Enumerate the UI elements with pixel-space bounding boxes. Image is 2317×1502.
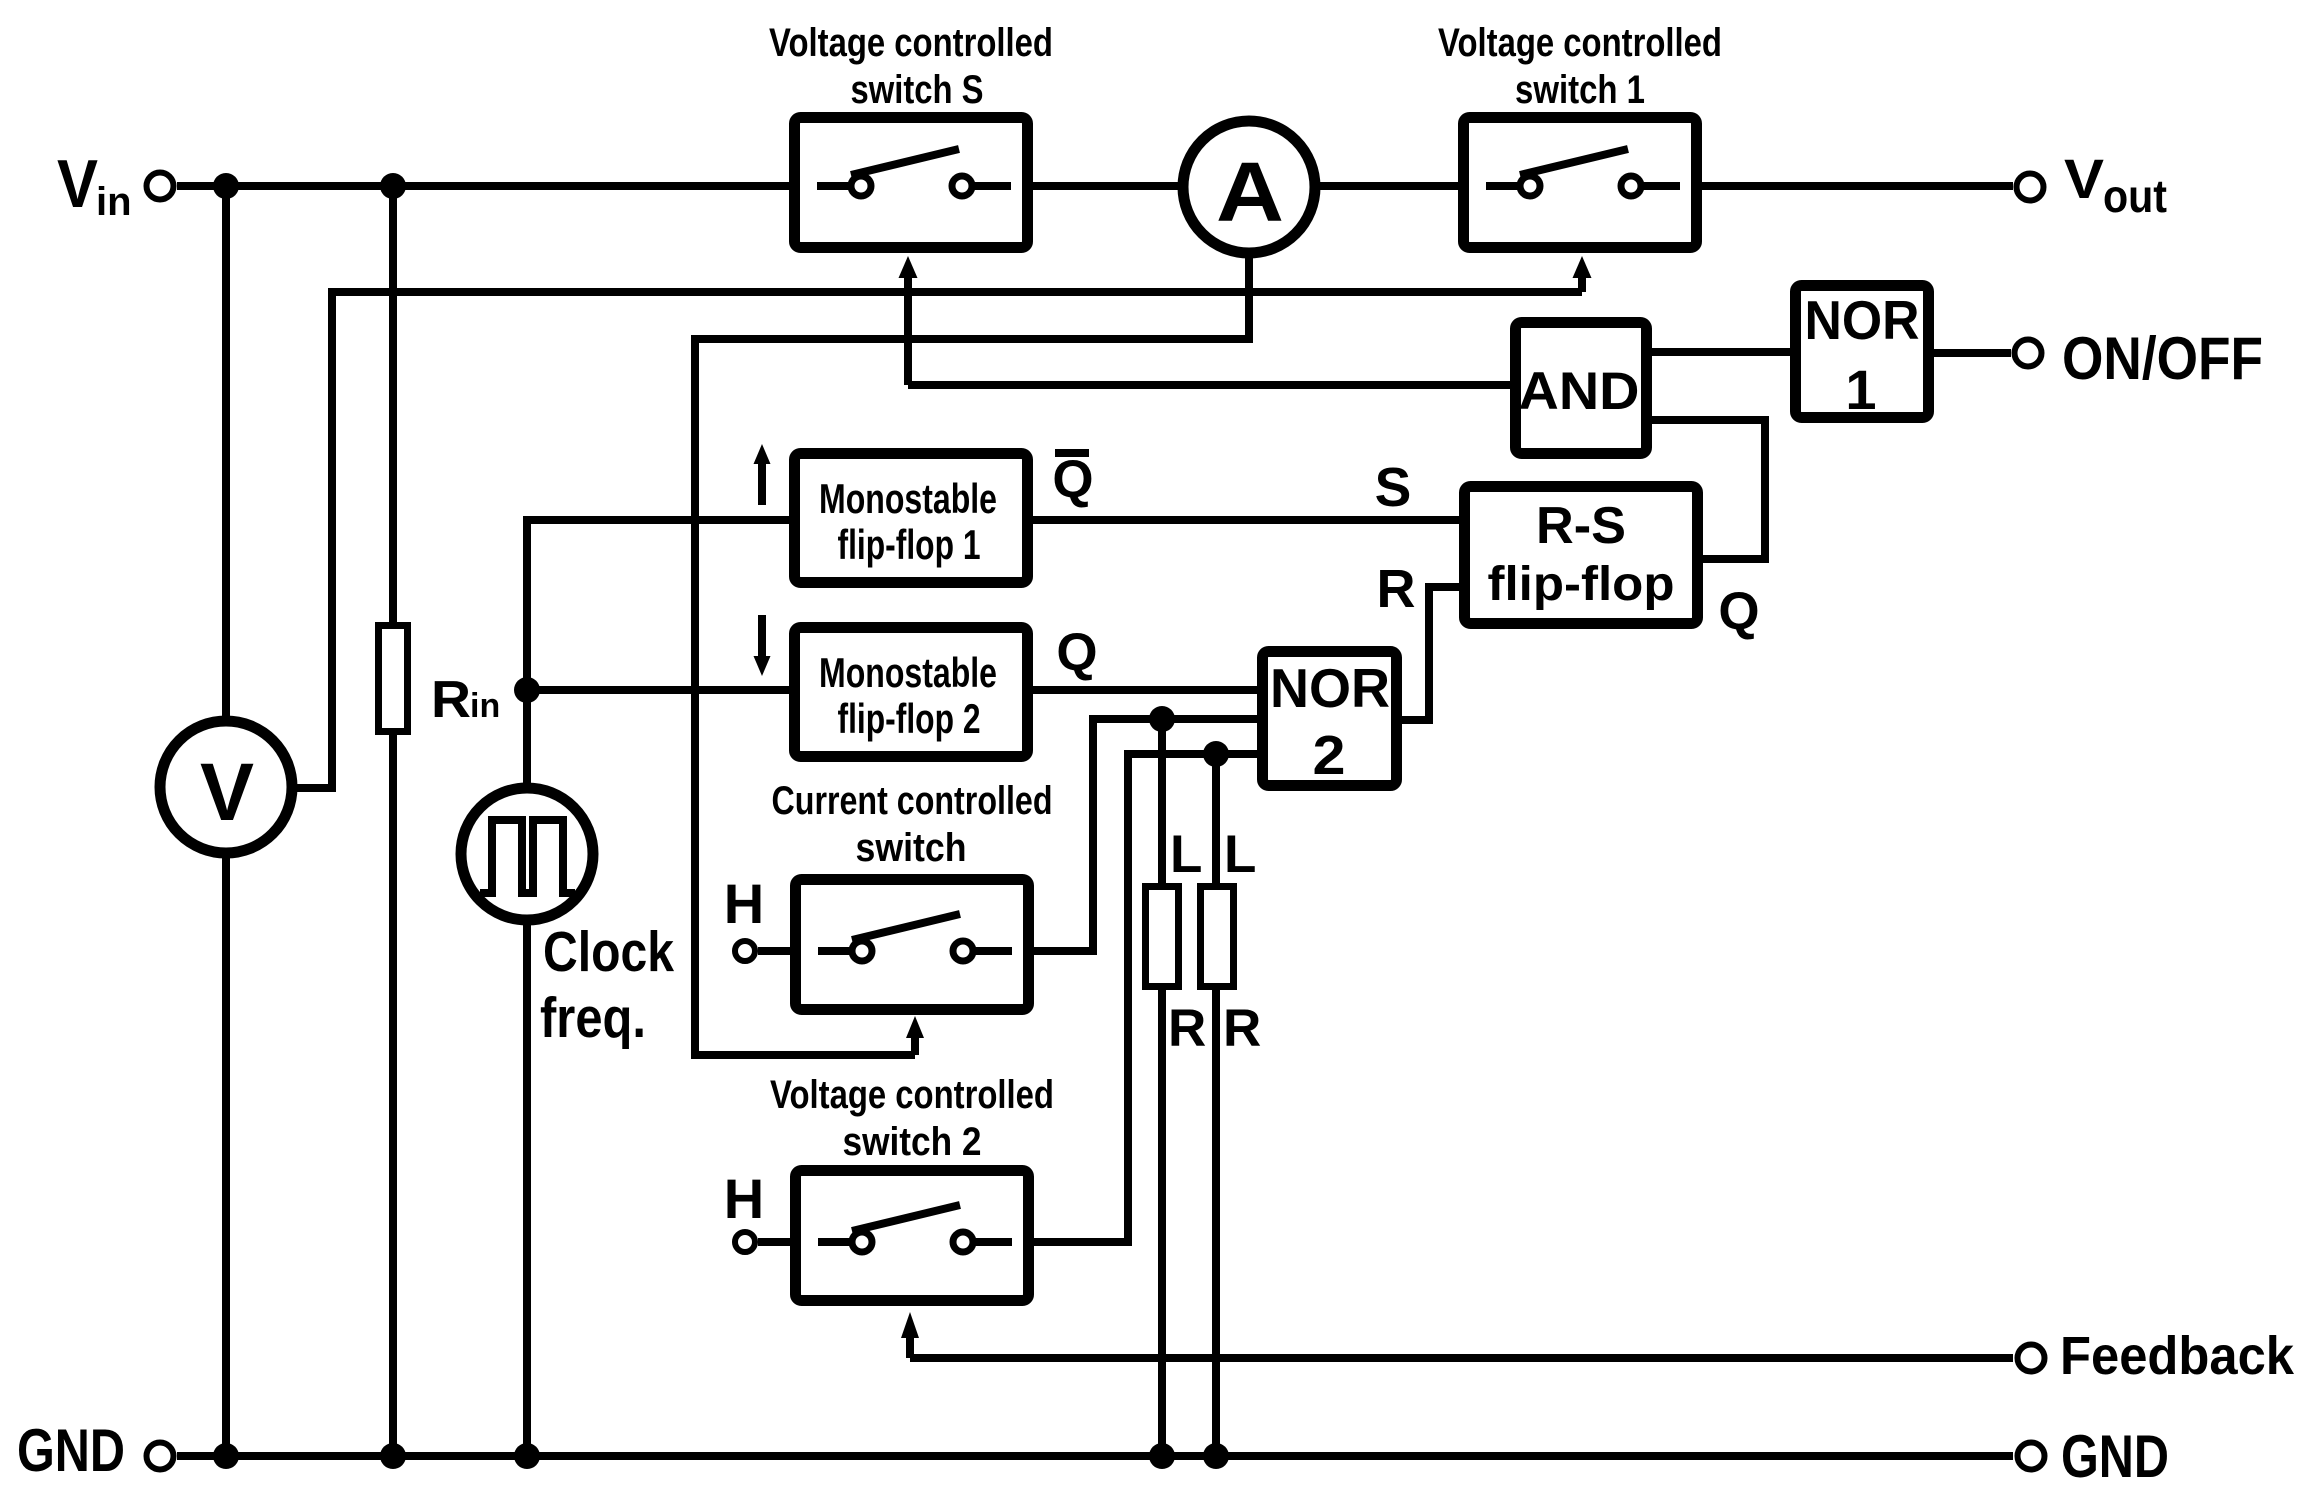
svg-text:R: R — [1377, 559, 1416, 619]
svg-text:switch: switch — [856, 826, 967, 870]
svg-text:V: V — [200, 747, 254, 838]
wire switch 2 output to NOR2 — [1034, 754, 1257, 1242]
svg-text:R-S: R-S — [1536, 497, 1626, 555]
wire arrow into switch 2 control — [906, 1337, 914, 1358]
resistor L/R right — [1201, 825, 1262, 1058]
wire GND rail — [177, 1452, 2013, 1460]
svg-text:switch 1: switch 1 — [1515, 68, 1645, 112]
svg-text:Voltage controlled: Voltage controlled — [1438, 21, 1722, 65]
svg-text:2: 2 — [1313, 724, 1346, 786]
label Current controlled switch — [772, 779, 1053, 870]
svg-text:NOR: NOR — [1270, 657, 1390, 719]
svg-text:V: V — [57, 146, 98, 222]
wire clock bottom stem — [523, 920, 531, 1456]
node GND junction Rin — [380, 1443, 406, 1469]
node GND junction V — [213, 1443, 239, 1469]
trigger arrow down — [754, 615, 771, 676]
terminal ON/OFF — [2015, 325, 2264, 392]
wire ammeter sense stem — [695, 253, 1249, 1055]
svg-text:freq.: freq. — [540, 986, 646, 1050]
wire Rin bottom — [389, 731, 397, 1456]
ammeter A — [1183, 121, 1315, 253]
svg-text:H: H — [724, 872, 764, 935]
svg-text:L: L — [1170, 825, 1202, 884]
node junction left resistor tap — [1149, 706, 1175, 732]
voltage controlled switch 2 — [796, 1171, 1029, 1301]
svg-text:flip-flop: flip-flop — [1488, 558, 1675, 611]
svg-text:ON/OFF: ON/OFF — [2062, 325, 2263, 392]
svg-text:switch 2: switch 2 — [843, 1120, 982, 1164]
wire right resistor bottom leg — [1212, 984, 1220, 1456]
svg-text:H: H — [724, 1167, 764, 1230]
svg-text:V: V — [2064, 147, 2104, 210]
wire current switch output to NOR2 — [1034, 719, 1257, 951]
svg-text:in: in — [96, 180, 132, 224]
wire arrow into switch 1 control — [1578, 276, 1586, 292]
label Voltage controlled switch 2 — [770, 1073, 1054, 1164]
gate NOR 1 — [1796, 286, 1929, 422]
terminal Vin — [57, 146, 174, 224]
svg-text:Monostable: Monostable — [819, 475, 997, 522]
wire S line from flip-flop 1 — [1033, 516, 1459, 524]
voltmeter V — [160, 721, 292, 853]
svg-text:AND: AND — [1519, 362, 1640, 421]
wire V meter top stem — [222, 186, 230, 722]
svg-text:Voltage controlled: Voltage controlled — [769, 21, 1053, 65]
wire NOR1 to ON/OFF — [1934, 349, 2011, 357]
flip-flop R-S — [1465, 487, 1698, 624]
wire main rail segment 4 — [1702, 182, 2013, 190]
node GND junction left resistor — [1149, 1443, 1175, 1469]
svg-text:A: A — [1216, 145, 1284, 239]
wire main rail segment 2 — [1033, 182, 1183, 190]
svg-text:Clock: Clock — [543, 920, 674, 984]
wire right resistor top leg — [1212, 754, 1220, 890]
gate AND — [1516, 323, 1647, 454]
wire V sense tap — [290, 292, 1582, 788]
svg-text:GND: GND — [2061, 1423, 2169, 1490]
svg-text:GND: GND — [17, 1417, 125, 1484]
resistor L/R left — [1146, 825, 1207, 1058]
wire arrow into current controlled switch — [911, 1037, 919, 1055]
svg-text:R: R — [1168, 999, 1206, 1058]
terminal Feedback — [2018, 1326, 2295, 1386]
monostable flip-flop 1 — [795, 454, 1028, 583]
wire flip-flop 2 to NOR2 — [1033, 686, 1257, 694]
svg-text:Q: Q — [1718, 582, 1759, 641]
svg-text:out: out — [2103, 170, 2167, 222]
terminal GND right — [2018, 1423, 2170, 1490]
wire AND second input from Q — [1652, 420, 1765, 559]
terminal H of voltage controlled switch 2 — [724, 1167, 792, 1252]
wire AND to NOR1 — [1652, 348, 1793, 356]
node junction right resistor tap — [1203, 741, 1229, 767]
svg-text:Feedback: Feedback — [2060, 1326, 2295, 1386]
wire clock to flip-flop 1 — [527, 520, 793, 690]
wire Feedback line — [910, 1354, 2013, 1362]
svg-text:R: R — [1223, 999, 1261, 1058]
resistor Rin — [379, 626, 501, 732]
node junction Vin-V — [213, 173, 239, 199]
svg-text:in: in — [470, 687, 500, 725]
svg-text:S: S — [1375, 456, 1412, 518]
svg-text:1: 1 — [1845, 358, 1876, 421]
terminal Vout — [2017, 147, 2168, 222]
svg-text:flip-flop 2: flip-flop 2 — [838, 695, 981, 742]
node GND junction clock — [514, 1443, 540, 1469]
svg-text:NOR: NOR — [1805, 289, 1920, 351]
wire Rin top — [389, 186, 397, 626]
wire left resistor top leg — [1158, 719, 1166, 890]
wire main rail segment 3 — [1315, 182, 1458, 190]
svg-text:Q: Q — [1056, 623, 1097, 682]
wire clock to flip-flop 2 — [527, 686, 793, 694]
svg-text:Q: Q — [1052, 450, 1093, 509]
wire left resistor bottom leg — [1158, 984, 1166, 1456]
svg-text:Monostable: Monostable — [819, 649, 997, 696]
wire clock top stem — [523, 690, 531, 790]
svg-text:Current controlled: Current controlled — [772, 779, 1053, 823]
wire R line from NOR2 — [1402, 587, 1459, 720]
svg-text:Voltage controlled: Voltage controlled — [770, 1073, 1054, 1117]
wire switch S control and AND input — [908, 381, 1510, 389]
svg-text:flip-flop 1: flip-flop 1 — [838, 521, 981, 568]
svg-text:switch S: switch S — [851, 68, 984, 112]
monostable flip-flop 2 — [795, 628, 1028, 757]
wire V meter bottom stem — [222, 853, 230, 1456]
node junction Vin-Rin — [380, 173, 406, 199]
voltage controlled switch 1 — [1438, 21, 1722, 248]
node clock junction — [514, 677, 540, 703]
svg-text:R: R — [431, 671, 471, 729]
current controlled switch — [796, 880, 1029, 1010]
gate NOR 2 — [1263, 652, 1397, 787]
node GND junction right resistor — [1203, 1443, 1229, 1469]
svg-text:L: L — [1224, 825, 1256, 884]
terminal H of current controlled switch — [724, 872, 792, 961]
trigger arrow up — [754, 444, 771, 505]
voltage controlled switch S — [769, 21, 1053, 248]
terminal GND left — [17, 1417, 174, 1484]
node label Q-bar — [1052, 450, 1093, 509]
clock generator — [461, 788, 674, 1050]
wire Vin main rail segment 1 — [177, 182, 789, 190]
